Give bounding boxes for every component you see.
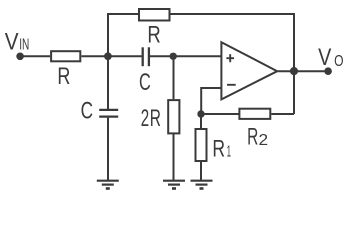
node output dot xyxy=(290,67,298,75)
svg-text:R: R xyxy=(212,136,225,163)
node minus-junction dot xyxy=(197,110,204,117)
resistor R top feedback box xyxy=(139,9,170,21)
wire op-amp output to Vo xyxy=(278,70,329,72)
svg-text:V: V xyxy=(318,44,331,71)
svg-text:1: 1 xyxy=(227,144,231,161)
node input dot xyxy=(16,53,24,61)
wire junction to R2 xyxy=(201,113,239,115)
wire node A down to shunt C xyxy=(107,56,109,109)
capacitor C series plates xyxy=(143,47,149,66)
node A dot xyxy=(104,52,112,60)
label VIN xyxy=(5,29,30,56)
node B dot xyxy=(170,53,177,60)
wire junction down to R1 xyxy=(200,114,202,128)
wire input Vin to R xyxy=(20,55,50,57)
wire R to node A xyxy=(82,55,109,57)
resistor 2R box xyxy=(168,100,179,133)
ground under 2R xyxy=(163,181,185,189)
svg-text:C: C xyxy=(139,69,151,96)
wire R1 to ground xyxy=(200,162,202,180)
resistor R1 box xyxy=(196,129,207,161)
wire op-amp - input jog down to junction xyxy=(201,88,221,114)
resistor R input box xyxy=(51,51,80,61)
svg-text:R: R xyxy=(147,21,160,48)
capacitor C shunt plates xyxy=(99,110,118,117)
wire top feedback run (node A up and across to output column) xyxy=(108,14,294,56)
svg-text:2: 2 xyxy=(259,132,269,149)
op-amp U1 triangle xyxy=(221,42,277,99)
svg-text:R: R xyxy=(247,124,258,151)
svg-text:V: V xyxy=(5,29,19,56)
svg-text:R: R xyxy=(57,63,70,90)
svg-text:IN: IN xyxy=(19,37,29,54)
wire 2R to ground xyxy=(173,133,175,180)
label R1 xyxy=(212,136,231,163)
label 2R xyxy=(141,105,161,132)
svg-text:2: 2 xyxy=(141,105,149,132)
wire series C to node B xyxy=(150,55,173,57)
ground under R1 xyxy=(191,181,213,189)
svg-text:C: C xyxy=(81,98,93,125)
label VO xyxy=(318,44,343,71)
op-amp - input symbol xyxy=(227,84,236,86)
svg-text:O: O xyxy=(334,53,343,70)
resistor R2 box xyxy=(239,109,270,119)
node Vo terminal dot xyxy=(324,67,332,75)
wire output column vertical (top wire down through output node to R2 level) xyxy=(293,13,295,114)
wire R2 to output column xyxy=(271,113,294,115)
wire node B down to 2R xyxy=(173,56,175,99)
wire node B to op-amp + input xyxy=(173,55,221,57)
ground under shunt C xyxy=(97,181,119,189)
svg-text:R: R xyxy=(150,105,161,132)
wire node A to series C xyxy=(108,55,142,57)
wire shunt C to ground xyxy=(107,118,109,180)
op-amp + input symbol xyxy=(226,54,234,62)
label R2 xyxy=(247,124,268,151)
